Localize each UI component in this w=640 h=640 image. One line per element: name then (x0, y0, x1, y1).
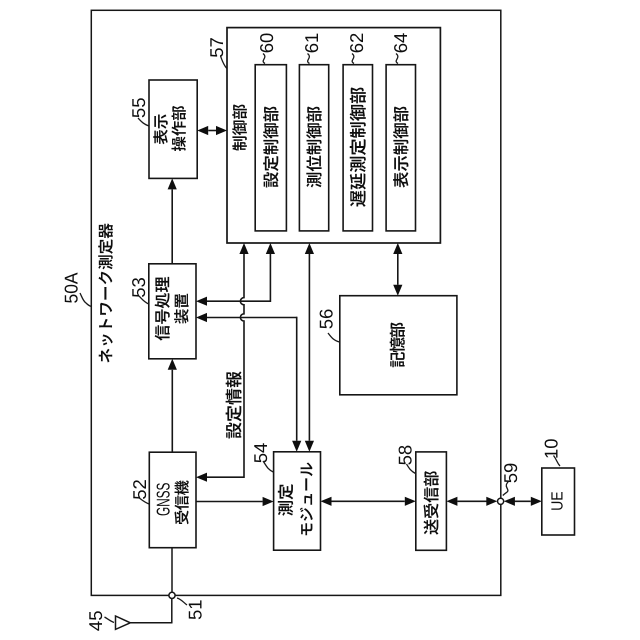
svg-text:62: 62 (346, 33, 367, 54)
leader curve for 52 (138, 497, 149, 504)
text shingo shori (signal processing) (155, 277, 170, 341)
leader curve for 56 (328, 333, 340, 342)
wire node 51 to GNSS receiver 52 (171, 548, 173, 593)
text module (katakana) (300, 462, 313, 535)
svg-text:52: 52 (129, 479, 150, 500)
block 57 control unit (227, 28, 440, 243)
block 61 positioning control unit (299, 65, 328, 231)
leader curve for 61 (308, 54, 310, 64)
text seigyo-bu (control unit) (232, 104, 247, 150)
svg-text:55: 55 (128, 98, 149, 119)
wire 53-57 bidirectional L arrow (196, 243, 275, 306)
leader curve for 51 (177, 598, 187, 605)
wire 54-58 bidirectional arrow (321, 497, 416, 506)
svg-text:50A: 50A (61, 272, 82, 304)
wire 52-53 arrow (168, 359, 177, 452)
antenna 45 (116, 616, 173, 629)
wire 54-57 bidirectional arrow (305, 243, 314, 452)
text sojushin-bu (transceiver) (423, 471, 438, 534)
text sokutei (measurement) (278, 484, 293, 516)
text hyoji seigyo-bu (393, 107, 408, 188)
svg-text:51: 51 (185, 599, 206, 620)
block 64 display control unit (386, 65, 415, 231)
wire 53-55 arrow (168, 178, 177, 263)
leader curve for 54 (263, 461, 273, 472)
leader curve for 55 (138, 118, 149, 126)
leader curve for 53 (139, 296, 149, 304)
svg-text:56: 56 (316, 309, 337, 330)
leader curve for 50A (80, 293, 91, 307)
svg-text:57: 57 (206, 37, 227, 58)
svg-text:54: 54 (250, 443, 271, 464)
wire 52-57 bidirectional L arrow (setting info) (196, 243, 249, 482)
node 51 (169, 592, 175, 598)
text sochi (device) (174, 294, 189, 324)
svg-text:10: 10 (541, 438, 562, 459)
svg-text:45: 45 (85, 611, 106, 632)
wire 53-54 bidirectional L arrow (196, 313, 301, 452)
title network measuring device (98, 223, 113, 362)
block 60 setting control unit (255, 65, 286, 231)
leader curve for 57 (221, 56, 227, 69)
svg-text:60: 60 (256, 33, 277, 54)
outer frame of network measuring device 50A (91, 10, 501, 595)
block 10 UE (542, 468, 575, 535)
leader curve for 59 (503, 482, 509, 496)
svg-text:58: 58 (394, 445, 415, 466)
text kioku-bu (storage unit) (390, 323, 405, 368)
text settei joho (setting information) (226, 371, 242, 438)
block 54 measurement module (274, 452, 321, 550)
svg-text:53: 53 (128, 277, 149, 298)
block 55 display operation unit (149, 80, 197, 178)
svg-text:UE: UE (548, 491, 566, 511)
svg-text:59: 59 (500, 463, 521, 484)
block 52 GNSS receiver (149, 452, 196, 548)
text sokui seigyo-bu (306, 107, 321, 188)
wire 58-node59 bidirectional arrow (446, 497, 497, 506)
svg-text:64: 64 (390, 33, 411, 54)
wire antenna to node 51 (171, 597, 173, 623)
block 53 signal processing device (149, 264, 196, 359)
node 59 (498, 498, 504, 504)
leader curve for 45 (105, 617, 115, 623)
text chien sokutei seigyo-bu (350, 87, 366, 206)
text jushinki (receiver) (174, 480, 188, 524)
wire 55-57 bidirectional arrow (197, 126, 227, 135)
wire 56-57 bidirectional arrow (393, 243, 402, 296)
text sosa-bu (operation unit) (171, 106, 185, 151)
block 56 storage unit (340, 296, 457, 395)
block 58 transceiver unit (416, 452, 447, 550)
text hyoji (display) (153, 115, 167, 145)
svg-text:61: 61 (301, 33, 322, 54)
block 62 delay measurement control unit (343, 65, 372, 231)
text settei seigyo-bu (263, 107, 278, 188)
wire 52-54 arrow (196, 497, 274, 506)
leader curve for 62 (352, 54, 354, 64)
svg-text:GNSS: GNSS (153, 483, 174, 517)
leader curve for 64 (396, 54, 398, 64)
leader curve for 60 (263, 54, 265, 64)
leader curve for 58 (407, 464, 416, 474)
wire node59-UE bidirectional arrow (504, 497, 542, 506)
leader curve for 10 (554, 456, 561, 467)
